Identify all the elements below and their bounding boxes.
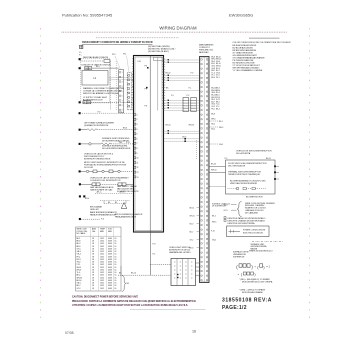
svg-text:): ) bbox=[263, 264, 265, 269]
svg-text:12: 12 bbox=[137, 167, 139, 169]
svg-text:P-1: P-1 bbox=[189, 88, 192, 90]
color code legend rule bbox=[249, 37, 280, 39]
svg-text:FAISCEAU: FAISCEAU bbox=[199, 51, 209, 54]
svg-text:UL: UL bbox=[115, 288, 117, 290]
svg-text:BK-8: BK-8 bbox=[211, 114, 215, 116]
wire labels upper bbox=[166, 73, 194, 97]
svg-text:P-9: P-9 bbox=[98, 111, 101, 113]
note brace bbox=[237, 202, 241, 217]
svg-text:BK-14: BK-14 bbox=[190, 208, 195, 210]
warning text block bbox=[83, 87, 124, 95]
svg-text:1: 1 bbox=[137, 114, 138, 116]
supply text block bbox=[83, 96, 108, 102]
svg-text:+BK-8+: +BK-8+ bbox=[119, 192, 125, 194]
gas valve text bbox=[90, 186, 114, 192]
svg-text:DE LA SUPERFICIE/BRULEUR: DE LA SUPERFICIE/BRULEUR bbox=[102, 147, 131, 150]
svg-text:Publication No: 5995547345: Publication No: 5995547345 bbox=[62, 13, 113, 18]
svg-text:DSI: DSI bbox=[138, 61, 142, 63]
svg-text:+: + bbox=[238, 272, 240, 276]
svg-text:6: 6 bbox=[122, 96, 123, 98]
svg-text:COLOR CODE/CODIGO DE COLORES/C: COLOR CODE/CODIGO DE COLORES/CODE DE COU… bbox=[233, 42, 291, 44]
color code legend bbox=[233, 42, 291, 72]
node P9 row bbox=[79, 112, 81, 114]
svg-text:GN-5: GN-5 bbox=[219, 144, 223, 146]
main harness connector strip bbox=[200, 57, 210, 283]
svg-text:DEL VENTILADOR: DEL VENTILADOR bbox=[228, 165, 246, 168]
spark module equation bbox=[236, 264, 270, 270]
ground text bbox=[251, 243, 268, 251]
svg-text:GN-5: GN-5 bbox=[212, 240, 216, 242]
wire L2 to board bbox=[91, 101, 134, 103]
wires board to harness upper bbox=[164, 60, 200, 111]
node N1 neutral bbox=[79, 58, 81, 60]
svg-text:BK: BK bbox=[119, 273, 122, 275]
table brace bbox=[122, 276, 126, 292]
wire drop to light box bbox=[150, 264, 171, 266]
latch motor text bbox=[84, 152, 114, 160]
registration marks left bbox=[40, 28, 42, 318]
board left edge ticks bbox=[132, 59, 134, 108]
svg-text:BK-5: BK-5 bbox=[212, 216, 216, 218]
power cord box bbox=[227, 226, 270, 237]
svg-text:13: 13 bbox=[137, 172, 139, 174]
svg-text:ATTENTION: COUPEZ L'ALIMENTATI: ATTENTION: COUPEZ L'ALIMENTATION AVANT D… bbox=[72, 304, 188, 307]
svg-text:4: 4 bbox=[137, 129, 138, 131]
registration marks right bbox=[309, 28, 311, 318]
svg-text:= 1: = 1 bbox=[266, 264, 270, 268]
svg-text:): ) bbox=[251, 264, 253, 269]
svg-text:3: 3 bbox=[122, 82, 123, 84]
svg-text:8: 8 bbox=[122, 105, 123, 107]
svg-text:NEUTRAL/BLANCO/WHITE: NEUTRAL/BLANCO/WHITE bbox=[83, 56, 109, 59]
header dotted rule tint bbox=[63, 31, 287, 33]
svg-text:P3: P3 bbox=[145, 106, 148, 108]
svg-text:P10: P10 bbox=[112, 54, 115, 56]
node latch bbox=[79, 170, 81, 172]
svg-text:BK: BK bbox=[166, 88, 169, 90]
denotes legend bbox=[224, 217, 266, 225]
wire neutral bbox=[81, 60, 105, 62]
svg-text:TERMICO/RUPTEUR THERMIQUE: TERMICO/RUPTEUR THERMIQUE bbox=[228, 174, 261, 176]
wire board bottom drop bbox=[149, 232, 151, 275]
valve dash net bbox=[100, 201, 130, 204]
svg-text:10: 10 bbox=[137, 158, 139, 160]
svg-text:GRILLER: GRILLER bbox=[90, 209, 99, 211]
svg-text:(: ( bbox=[236, 264, 238, 269]
svg-text:BR-6: BR-6 bbox=[85, 198, 89, 200]
svg-text:DE LA PUERTA: DE LA PUERTA bbox=[236, 152, 251, 155]
svg-text:BK-50: BK-50 bbox=[166, 73, 171, 75]
svg-text:WIRING DIAGRAM: WIRING DIAGRAM bbox=[159, 26, 197, 31]
wire labels mid bbox=[166, 125, 195, 127]
latch assembly text bbox=[90, 177, 129, 183]
node valve 2 bbox=[83, 195, 85, 197]
flame symbol bbox=[121, 203, 127, 209]
svg-text:7: 7 bbox=[122, 100, 123, 102]
svg-text:9: 9 bbox=[122, 110, 123, 112]
svg-text:07/08: 07/08 bbox=[65, 331, 74, 335]
labels left of harness lower bbox=[190, 208, 200, 250]
svg-text:DE SUPERFICIE: DE SUPERFICIE bbox=[212, 206, 227, 208]
svg-text:BK-50: BK-50 bbox=[211, 164, 216, 166]
wire latch 2 bbox=[81, 183, 134, 186]
door switch text above bbox=[236, 151, 272, 156]
blower text 2 bbox=[228, 171, 261, 177]
svg-text:DU FOUR: DU FOUR bbox=[84, 167, 94, 169]
wire bake net bbox=[95, 192, 135, 194]
svg-text:16: 16 bbox=[192, 330, 196, 334]
svg-text:(: ( bbox=[241, 272, 243, 276]
svg-text:QUEMADOR SUPERFICIE: QUEMADOR SUPERFICIE bbox=[84, 124, 109, 127]
junction dots mid bbox=[184, 138, 186, 142]
svg-text:7: 7 bbox=[137, 143, 138, 145]
main control board U1 bbox=[134, 56, 164, 233]
caution notice bbox=[72, 296, 197, 308]
svg-text:ALIMENTATION 120V: ALIMENTATION 120V bbox=[83, 99, 103, 102]
oven light text bbox=[169, 247, 191, 254]
node burner 1 bbox=[79, 129, 81, 131]
blower text 3 bbox=[230, 179, 267, 185]
svg-text:VENTILADOR/VENTILATEUR: VENTILADOR/VENTILATEUR bbox=[230, 182, 258, 185]
node valve 1 bbox=[79, 195, 81, 197]
svg-text:BK: BK bbox=[127, 283, 130, 285]
svg-text:BR-6: BR-6 bbox=[123, 128, 127, 130]
broil burner text bbox=[115, 213, 143, 219]
svg-text:PAGE:1/2: PAGE:1/2 bbox=[222, 305, 247, 311]
svg-text:P-6: P-6 bbox=[101, 219, 104, 221]
svg-text:* (BK) + (BK-8)(BK-5) TO SPARK: * (BK) + (BK-8)(BK-5) TO SPARK bbox=[239, 278, 270, 281]
wire latch chain bbox=[81, 170, 134, 173]
svg-text:1: 1 bbox=[122, 72, 123, 74]
wire bus vertical bbox=[110, 61, 112, 110]
svg-text:ELECTRICO/CORDON: ELECTRICO/CORDON bbox=[243, 232, 263, 234]
svg-text:OVEN CONDUIT // CONDUCTO DE HO: OVEN CONDUIT // CONDUCTO DE HORNO // CON… bbox=[82, 40, 153, 44]
svg-text:YL YELLOW/AMARILLO/JAUNE: YL YELLOW/AMARILLO/JAUNE bbox=[233, 69, 263, 72]
svg-text:318550108 REV:A: 318550108 REV:A bbox=[222, 298, 272, 304]
wires light box to harness bbox=[196, 263, 200, 275]
svg-text:600V: 600V bbox=[108, 288, 113, 290]
wire to P10 bbox=[92, 67, 119, 69]
svg-text:PARA HORNEAR/BRULEUR: PARA HORNEAR/BRULEUR bbox=[90, 213, 116, 216]
harness strip label bbox=[199, 44, 214, 54]
svg-text:3: 3 bbox=[137, 124, 138, 126]
svg-text:CONJUNTO DEL INTERRUPTOR: CONJUNTO DEL INTERRUPTOR bbox=[90, 180, 121, 182]
bake burner text bbox=[90, 211, 117, 217]
svg-text:P8: P8 bbox=[145, 89, 148, 91]
broil text bbox=[90, 206, 103, 212]
node L2 terminal bbox=[79, 101, 81, 103]
svg-text:GY-2: GY-2 bbox=[77, 288, 81, 290]
svg-text:(: ( bbox=[257, 264, 259, 269]
svg-text:L1: L1 bbox=[94, 77, 97, 80]
svg-text:P-3: P-3 bbox=[225, 158, 228, 160]
svg-text:P-10: P-10 bbox=[211, 231, 215, 233]
wire bake bbox=[81, 218, 101, 220]
connector J2 bbox=[183, 98, 189, 112]
board labels bbox=[138, 61, 149, 108]
svg-text:18: 18 bbox=[92, 288, 94, 290]
svg-text:105C: 105C bbox=[100, 288, 105, 290]
svg-text:WH-50: WH-50 bbox=[211, 170, 217, 172]
board inner divider bbox=[149, 56, 151, 233]
svg-text:RD-9: RD-9 bbox=[190, 224, 194, 226]
surface ignitor text bbox=[102, 137, 130, 143]
svg-text:BK-8: BK-8 bbox=[190, 248, 194, 250]
junction dots column bbox=[168, 59, 169, 134]
surface ignitor text 2 bbox=[102, 145, 131, 151]
svg-text:WH-5: WH-5 bbox=[212, 222, 216, 224]
svg-text:P-2: P-2 bbox=[187, 95, 190, 97]
svg-text:P-5: P-5 bbox=[171, 95, 174, 97]
svg-text:MODULE/ALLUMAGE: MODULE/ALLUMAGE bbox=[242, 291, 263, 294]
svg-text:SERVICIO AL APARATO ELECTRIQUE: SERVICIO AL APARATO ELECTRIQUE bbox=[83, 92, 119, 95]
diagram title underline bbox=[82, 44, 153, 46]
svg-text:5: 5 bbox=[137, 134, 138, 136]
svg-text:* (WH) + (WH-6) TO SPARK: * (WH) + (WH-6) TO SPARK bbox=[239, 288, 266, 291]
svg-text:WH-6: WH-6 bbox=[211, 119, 215, 121]
harness pin labels mid bbox=[211, 88, 220, 111]
transformer L1 box bbox=[82, 71, 108, 86]
svg-text:5: 5 bbox=[122, 91, 123, 93]
svg-text:EW30GS65G: EW30GS65G bbox=[229, 13, 253, 18]
left rear burner text bbox=[84, 122, 115, 128]
door switch text bbox=[84, 162, 127, 169]
oven light switch box bbox=[171, 259, 196, 286]
wire L1 feed 2 bbox=[110, 79, 134, 81]
leader line P10 bbox=[115, 56, 121, 70]
conduit dashed enclosure bbox=[81, 58, 110, 103]
svg-text:BK-4: BK-4 bbox=[216, 108, 220, 110]
wire bus vertical 2 bbox=[115, 61, 117, 110]
connector J3 bbox=[191, 98, 197, 112]
svg-text:PK-1: PK-1 bbox=[216, 77, 220, 79]
harness right stub wires bbox=[210, 121, 224, 146]
svg-text:11: 11 bbox=[137, 162, 139, 164]
svg-text:GY-5: GY-5 bbox=[224, 210, 228, 212]
node latch 2 bbox=[79, 183, 81, 185]
svg-text:6: 6 bbox=[137, 138, 138, 140]
connector P11 strip bbox=[127, 73, 132, 110]
blower assembly box bbox=[226, 160, 276, 194]
svg-text:DENOTES GROUND/TIERRA: DENOTES GROUND/TIERRA bbox=[228, 222, 256, 225]
svg-text:GY-2: GY-2 bbox=[190, 240, 194, 242]
blower motor symbol bbox=[228, 187, 267, 190]
svg-text:INTERRUPTORES/MOTEUR: INTERRUPTORES/MOTEUR bbox=[84, 158, 111, 160]
connector BK WH 2 bbox=[83, 101, 91, 104]
note text block bbox=[245, 203, 275, 215]
pressure reg text bbox=[117, 185, 139, 193]
harness pin labels upper bbox=[211, 56, 221, 79]
wires board to harness mid bbox=[164, 131, 200, 141]
upper dashed rule bbox=[96, 37, 179, 39]
svg-text:BK-4: BK-4 bbox=[211, 77, 215, 79]
svg-text:BK-50: BK-50 bbox=[166, 125, 171, 127]
svg-text:LAMPARA DEL HORNO: LAMPARA DEL HORNO bbox=[169, 251, 191, 254]
svg-text:SUPERFICIE: SUPERFICIE bbox=[233, 256, 245, 258]
svg-text:+BK-1+: +BK-1+ bbox=[96, 192, 102, 194]
wire burner 1 bbox=[81, 129, 134, 131]
node L1 terminal bbox=[79, 67, 81, 69]
connector WH BK bbox=[85, 67, 92, 70]
svg-text:8: 8 bbox=[137, 148, 138, 150]
svg-text:CAUTION: DISCONNECT POWER BEFO: CAUTION: DISCONNECT POWER BEFORE SERVICI… bbox=[72, 296, 139, 299]
svg-text:2: 2 bbox=[137, 119, 138, 121]
blower terminals bbox=[274, 165, 279, 180]
svg-text:PRECAUCION: CORTAR LA CORRIENT: PRECAUCION: CORTAR LA CORRIENTE ANTES DE… bbox=[72, 300, 197, 303]
wire P9 row bbox=[82, 112, 134, 114]
svg-text:BK-14: BK-14 bbox=[131, 273, 136, 275]
board left pin header bbox=[134, 114, 139, 179]
svg-text:POWER CORD/CORDON: POWER CORD/CORDON bbox=[243, 230, 266, 232]
labels right of harness lower bbox=[212, 202, 231, 241]
svg-text:P-9: P-9 bbox=[191, 73, 194, 75]
svg-text:BLOWER MOTOR: BLOWER MOTOR bbox=[246, 197, 263, 199]
svg-text:): ) bbox=[254, 272, 255, 276]
terminal lamp bbox=[104, 60, 110, 63]
svg-text:9: 9 bbox=[137, 153, 138, 155]
header dotted rule bbox=[62, 31, 288, 33]
svg-text:WH-5: WH-5 bbox=[219, 127, 223, 129]
svg-text:DE CABLAGE: DE CABLAGE bbox=[245, 211, 258, 214]
ground symbol corner bbox=[79, 45, 83, 56]
caution underline bbox=[130, 309, 206, 311]
ground line bbox=[252, 240, 283, 242]
svg-text:WH-50: WH-50 bbox=[189, 125, 195, 127]
svg-text:MASSE: MASSE bbox=[251, 248, 258, 251]
svg-text:RD-5: RD-5 bbox=[211, 124, 215, 126]
harness pin labels lower bbox=[211, 114, 215, 131]
bullet note 2 bbox=[239, 288, 266, 294]
wire drop right of board bbox=[196, 140, 198, 160]
svg-text:MODULE/MODULO DE CHISPA: MODULE/MODULO DE CHISPA bbox=[242, 280, 273, 283]
svg-text:BK-1: BK-1 bbox=[96, 66, 100, 68]
wires strips to board bbox=[132, 75, 134, 110]
board top connector bbox=[153, 57, 163, 60]
svg-text:14: 14 bbox=[137, 177, 139, 179]
board inner column bbox=[157, 57, 159, 110]
svg-text:PK-1: PK-1 bbox=[211, 108, 215, 110]
wire table to light box bbox=[118, 266, 171, 275]
svg-text:BU-7: BU-7 bbox=[190, 232, 194, 234]
svg-text:+: + bbox=[254, 264, 256, 268]
svg-text:(N) NEUTRE (BLANC): (N) NEUTRE (BLANC) bbox=[148, 50, 169, 53]
svg-text:P11: P11 bbox=[123, 53, 126, 55]
svg-text:BU-2: BU-2 bbox=[211, 129, 215, 131]
note wire labels bbox=[224, 204, 237, 212]
board right pin ticks bbox=[162, 59, 165, 108]
wires harness to blower bbox=[210, 164, 226, 187]
svg-text:DENOTES PANEL MOUNTED/MONTADO: DENOTES PANEL MOUNTED/MONTADO bbox=[228, 217, 266, 220]
node ignitor bbox=[79, 143, 81, 145]
svg-text:P-9: P-9 bbox=[153, 244, 156, 246]
wire ignitor bbox=[81, 143, 134, 145]
bullet note 1 bbox=[239, 278, 273, 284]
spark module equation 2 bbox=[238, 272, 256, 276]
svg-text:P-12: P-12 bbox=[126, 142, 130, 144]
svg-text:NO CABLE: NO CABLE bbox=[77, 232, 87, 235]
wire L1 feed 1 bbox=[110, 76, 134, 78]
svg-text:CAL: CAL bbox=[92, 230, 95, 233]
node bake bbox=[79, 218, 81, 220]
connector P10 strip bbox=[119, 70, 124, 113]
svg-text:P-1: P-1 bbox=[153, 254, 156, 256]
wire table bbox=[76, 227, 122, 291]
leader line P11 bbox=[127, 56, 130, 73]
ground left text bbox=[233, 251, 249, 259]
neutral wire legend bbox=[148, 45, 176, 53]
blower text 1 bbox=[228, 163, 267, 168]
svg-text:WH-11: WH-11 bbox=[190, 216, 195, 218]
svg-text:BK-5: BK-5 bbox=[219, 121, 223, 123]
svg-text:BK-51: BK-51 bbox=[266, 158, 271, 160]
